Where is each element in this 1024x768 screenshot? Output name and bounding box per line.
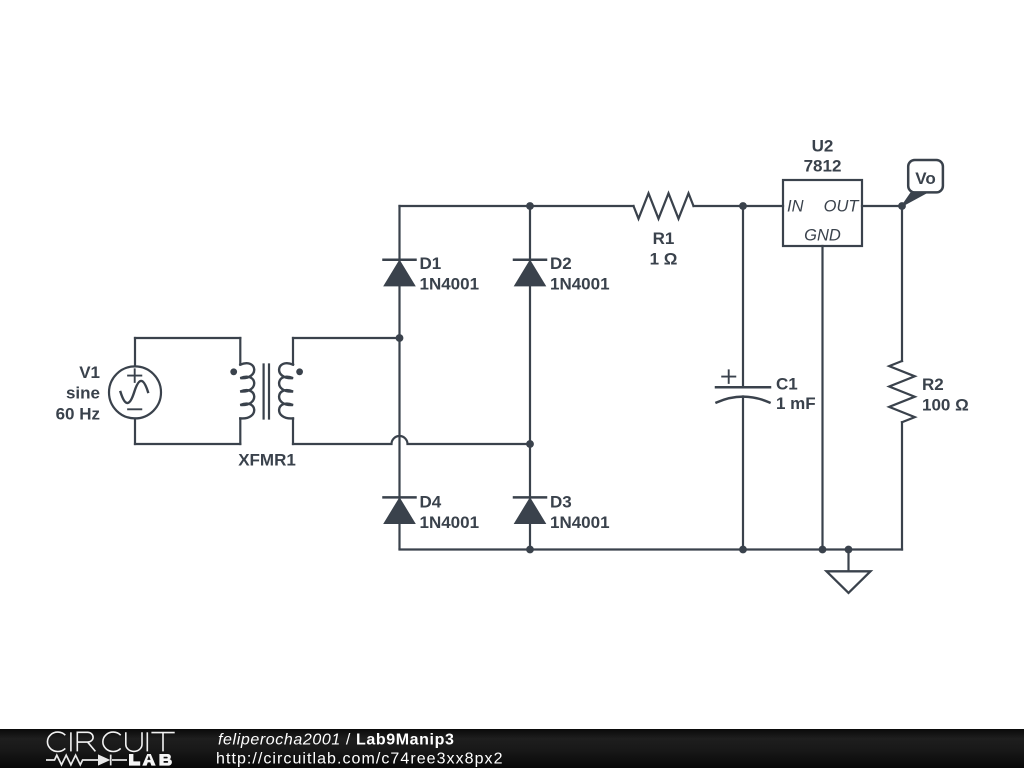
svg-text:U2: U2 — [812, 137, 834, 156]
diode D2 triangle — [515, 261, 545, 286]
svg-text:D3: D3 — [550, 492, 572, 511]
svg-text:1 Ω: 1 Ω — [650, 250, 678, 269]
V1 minus sign — [128, 408, 141, 410]
node junction secondary bottom / D2-D3 — [526, 440, 534, 448]
C1 plus sign — [722, 370, 735, 383]
wire U2 GND pin — [821, 246, 823, 550]
svg-text:1N4001: 1N4001 — [550, 513, 610, 532]
wire primary loop bottom — [135, 443, 240, 445]
wire C1 branch lower — [742, 397, 744, 550]
svg-text:1N4001: 1N4001 — [420, 275, 480, 294]
diode D4 triangle — [385, 499, 415, 524]
footer bar — [0, 729, 1024, 768]
logo LAB lettering — [129, 754, 172, 766]
wire secondary top rail — [293, 337, 400, 339]
wire C1 branch upper — [742, 206, 744, 386]
node junction bottom rail / GND pin — [819, 546, 827, 554]
node junction bottom rail / C1 — [739, 546, 747, 554]
ground stub wire — [847, 550, 849, 572]
diode D4 cathode bar — [384, 496, 416, 499]
diode D2 cathode bar — [514, 259, 546, 262]
svg-text:feliperocha2001 / Lab9Manip3: feliperocha2001 / Lab9Manip3 — [218, 732, 454, 749]
svg-text:R2: R2 — [922, 375, 944, 394]
regulator U2 box — [783, 180, 862, 246]
wire R2 branch upper — [901, 206, 903, 361]
logo schematic wire — [46, 755, 127, 766]
wire primary loop top — [135, 337, 240, 339]
svg-text:7812: 7812 — [804, 157, 842, 176]
svg-text:1N4001: 1N4001 — [550, 275, 610, 294]
svg-text:D2: D2 — [550, 254, 572, 273]
svg-text:C1: C1 — [776, 375, 798, 394]
node junction secondary top / bridge left — [396, 334, 404, 342]
wire transformer secondary stub top — [292, 338, 294, 365]
wire transformer secondary stub bottom — [292, 418, 294, 444]
svg-text:R1: R1 — [653, 229, 675, 248]
voltage source V1 circle — [109, 366, 161, 418]
transformer XFMR1 primary coil — [240, 363, 254, 418]
wire transformer primary stub bottom — [239, 418, 241, 444]
V1 plus sign — [128, 369, 141, 382]
wire right bridge vertical (D2/D3 branch) — [529, 206, 531, 550]
diode D3 triangle — [515, 499, 545, 524]
node junction top rail / D2 — [526, 202, 534, 210]
svg-text:Vo: Vo — [915, 169, 935, 188]
capacitor C1 top plate — [716, 386, 770, 389]
svg-text:http://circuitlab.com/c74ree3x: http://circuitlab.com/c74ree3xx8px2 — [216, 751, 504, 768]
transformer primary phase dot — [230, 368, 237, 375]
node junction bottom rail / D3 — [526, 546, 534, 554]
Vo flag pointer — [902, 193, 927, 206]
svg-text:V1: V1 — [79, 363, 100, 382]
wire R2 branch lower — [901, 422, 903, 549]
transformer XFMR1 secondary coil — [279, 363, 293, 418]
svg-text:OUT: OUT — [824, 197, 861, 215]
wire U2 OUT to node — [862, 205, 902, 207]
diode D3 cathode bar — [514, 496, 546, 499]
logo CIRCUIT lettering — [47, 732, 174, 751]
wire primary left lower — [134, 419, 136, 445]
V1 sine symbol — [121, 381, 149, 403]
wire secondary bottom rail with hop over D1-D4 branch — [293, 436, 530, 444]
svg-text:100 Ω: 100 Ω — [922, 396, 969, 415]
Vo flag box — [908, 160, 943, 192]
ground symbol triangle — [827, 571, 871, 593]
transformer secondary phase dot — [296, 368, 303, 375]
wire R1 to U2 IN — [694, 205, 784, 207]
wire transformer primary stub top — [239, 338, 241, 365]
resistor R2 zigzag — [889, 361, 915, 422]
svg-text:D4: D4 — [420, 492, 442, 511]
svg-text:D1: D1 — [420, 254, 442, 273]
wire top rail from bridge to R1 — [400, 205, 634, 207]
wire bottom rail — [400, 548, 903, 550]
svg-text:1N4001: 1N4001 — [420, 513, 480, 532]
node junction OUT / R2 / Vo — [898, 202, 906, 210]
svg-text:1 mF: 1 mF — [776, 394, 816, 413]
diode D1 triangle — [385, 261, 415, 286]
svg-text:GND: GND — [804, 227, 841, 245]
node junction bottom rail / ground — [845, 546, 853, 554]
svg-text:60 Hz: 60 Hz — [56, 404, 100, 423]
diode D1 cathode bar — [384, 259, 416, 262]
wire primary left upper — [134, 338, 136, 366]
resistor R1 zigzag — [634, 193, 694, 218]
svg-text:IN: IN — [787, 197, 804, 215]
svg-text:sine: sine — [66, 384, 100, 403]
capacitor C1 bottom plate arc — [717, 397, 770, 403]
transformer core bars — [264, 365, 269, 419]
logo diode triangle — [98, 754, 110, 765]
svg-text:XFMR1: XFMR1 — [238, 450, 296, 469]
wire left bridge vertical (D1/D4 branch) — [398, 206, 400, 548]
node junction top rail / C1 — [739, 202, 747, 210]
